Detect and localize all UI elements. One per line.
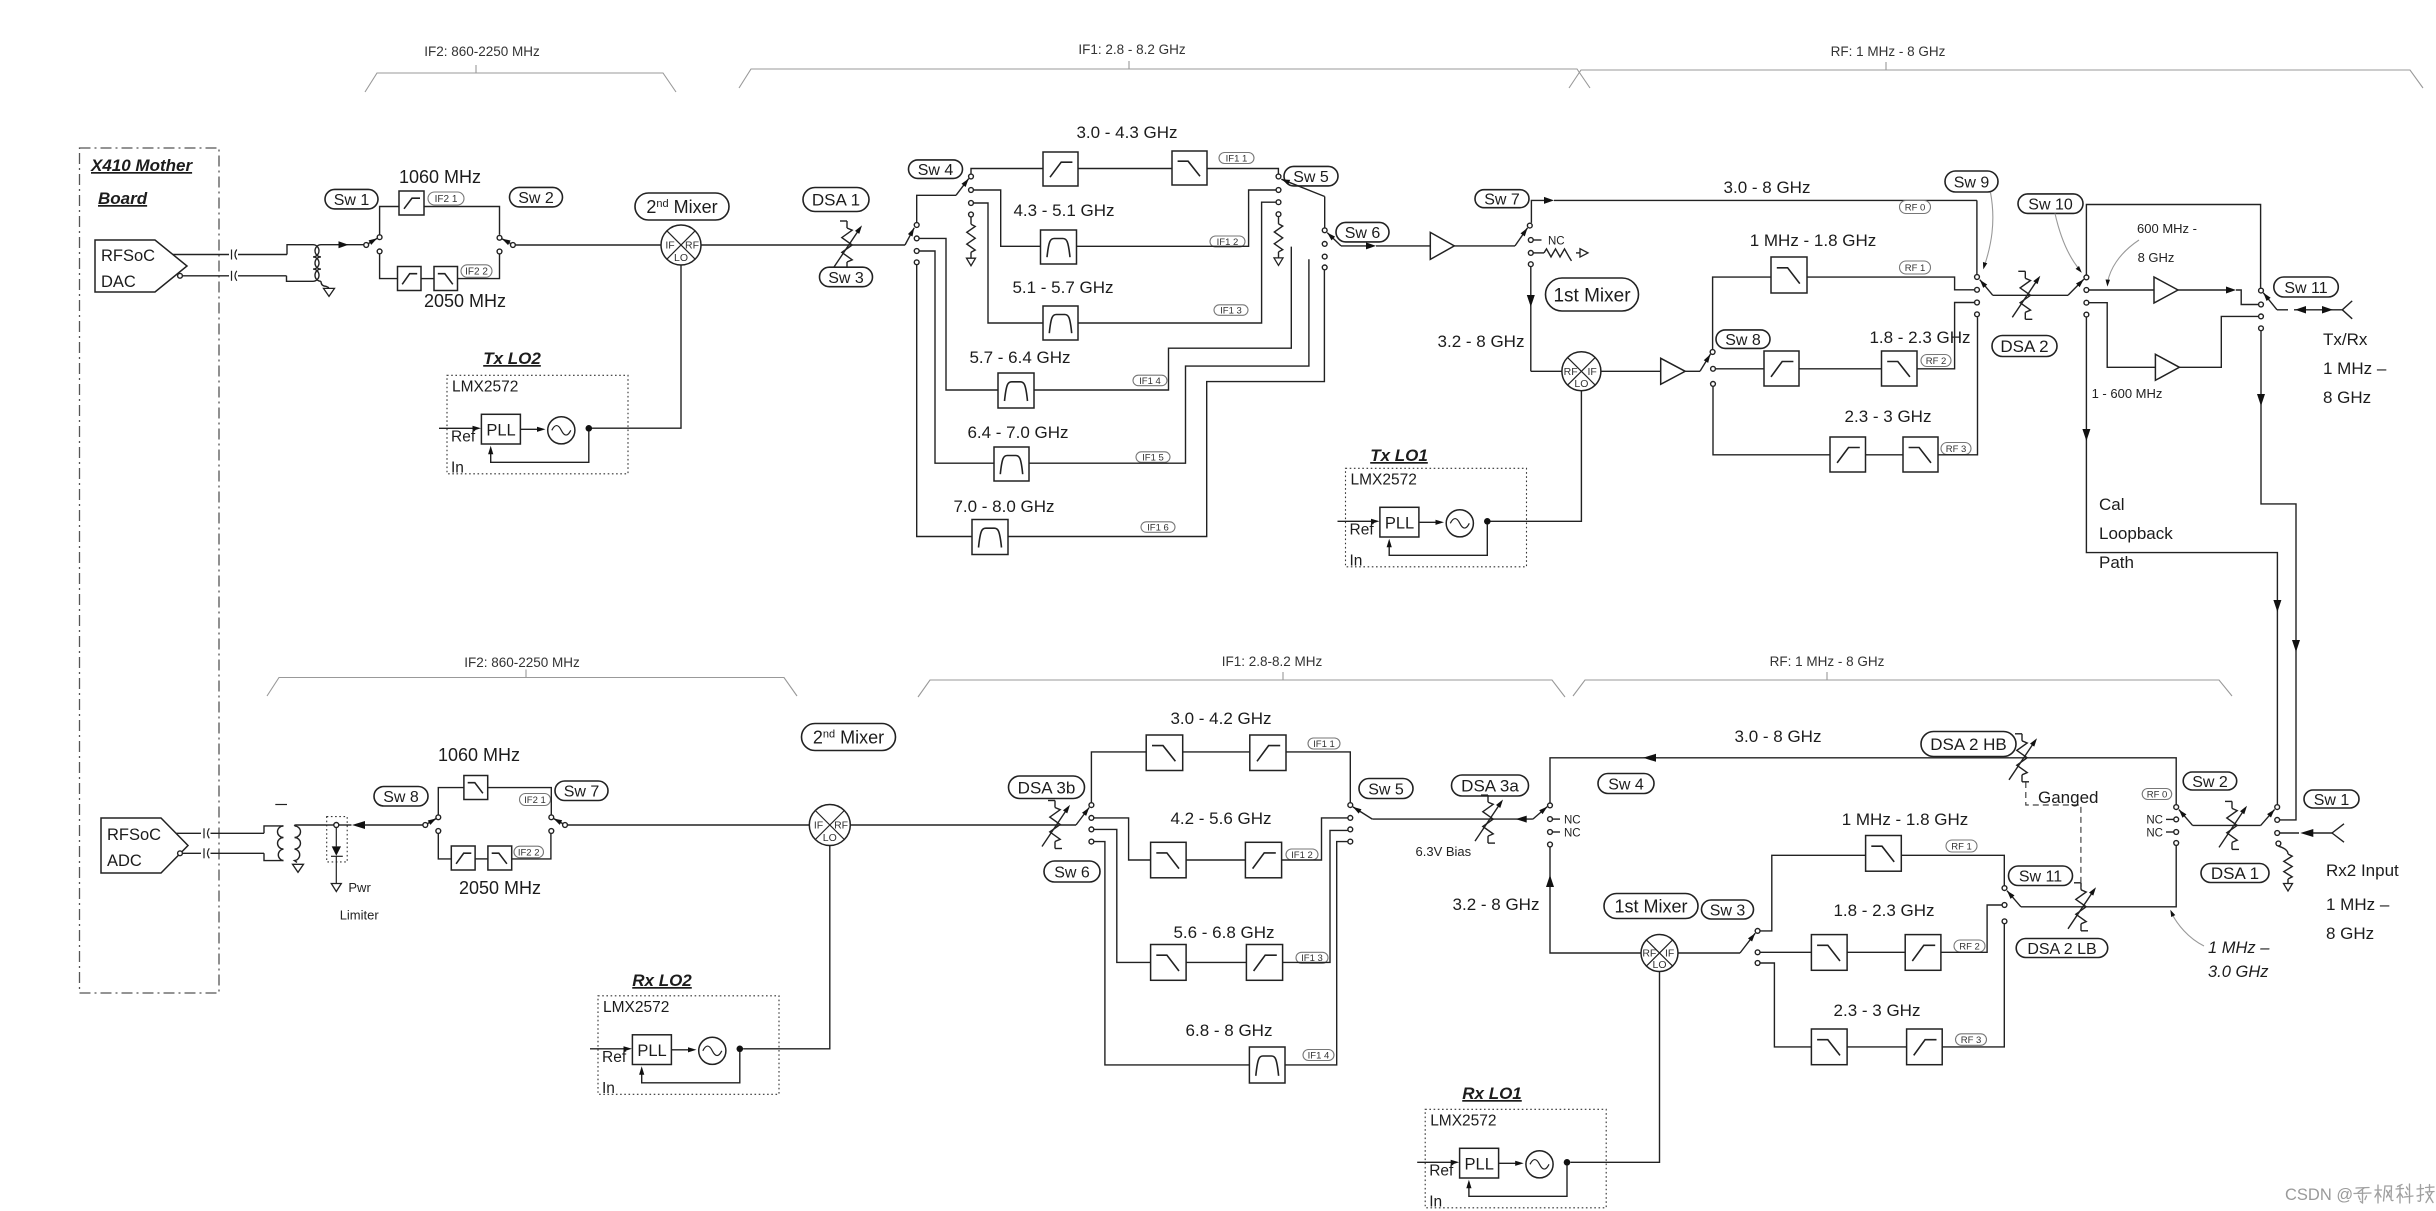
svg-text:IF1 1: IF1 1	[1313, 739, 1335, 750]
amplifier A2 Tx	[1661, 358, 1686, 384]
svg-text:1 MHz - 1.8 GHz: 1 MHz - 1.8 GHz	[1750, 231, 1877, 250]
NC stub Sw4Rx c2	[1553, 818, 1560, 820]
wire Sw8c3 to RF3 filters	[1713, 387, 1830, 455]
svg-text:Sw 7: Sw 7	[1484, 192, 1520, 209]
svg-text:IF2 2: IF2 2	[518, 847, 540, 858]
contact Sw4 c3	[969, 201, 974, 206]
net IF1 3	[1214, 305, 1248, 316]
PLL block Tx LO1	[1346, 468, 1527, 567]
svg-text:5.6 - 6.8 GHz: 5.6 - 6.8 GHz	[1173, 923, 1274, 942]
contact Sw8 Rx lower	[436, 829, 441, 834]
wire band5 to Sw6	[1029, 259, 1309, 463]
svg-text:DSA 2 HB: DSA 2 HB	[1930, 735, 2007, 754]
net RF 0	[1900, 201, 1931, 214]
svg-text:RF 2: RF 2	[1959, 941, 1980, 952]
ground limiter	[331, 884, 341, 892]
wire RF2 to Sw9	[1917, 303, 1974, 369]
net RF 1	[1900, 261, 1931, 274]
net Rx IF1 2	[1286, 849, 1318, 860]
balun transformer Tx	[287, 245, 306, 255]
arm Sw2	[502, 239, 511, 244]
svg-text:1 MHz - 1.8 GHz: 1 MHz - 1.8 GHz	[1842, 810, 1969, 829]
svg-text:3.0 - 4.3 GHz: 3.0 - 4.3 GHz	[1076, 123, 1177, 142]
watermark glyph ke	[2398, 1185, 2403, 1187]
limiter dotted box	[327, 817, 348, 862]
net IF2 1 Rx	[520, 794, 551, 806]
attenuator DSA 1 label	[803, 188, 869, 212]
svg-text:IF2: 860-2250 MHz: IF2: 860-2250 MHz	[424, 44, 540, 59]
svg-text:RF: 1 MHz - 8 GHz: RF: 1 MHz - 8 GHz	[1770, 654, 1885, 669]
svg-text:DAC: DAC	[101, 273, 136, 291]
contact Sw5 c2	[1276, 188, 1281, 193]
svg-text:4.3 - 5.1 GHz: 4.3 - 5.1 GHz	[1013, 201, 1114, 220]
contact Rx DSA3b c2	[1089, 816, 1094, 821]
wire between 2050 filters	[421, 278, 434, 280]
capacitor C lower Tx	[231, 271, 233, 281]
net IF1 2	[1210, 236, 1245, 247]
svg-text:Sw 4: Sw 4	[1608, 776, 1644, 793]
filter 5.7-6.4 BPF	[998, 373, 1034, 408]
attenuator DSA 3a label	[1452, 775, 1529, 796]
svg-text:Path: Path	[2099, 553, 2134, 572]
wire to amp1	[1376, 245, 1430, 247]
svg-text:LO: LO	[1652, 959, 1666, 971]
filter 4.3-5.1 BPF	[1041, 230, 1077, 264]
contact Sw6 c3	[1322, 254, 1327, 259]
svg-text:Sw 5: Sw 5	[1293, 169, 1329, 186]
filter 2050 LPF Rx	[488, 846, 512, 870]
mixer U-Rx2 circle	[809, 805, 850, 846]
contact Rx DSA3b c4	[1089, 839, 1094, 844]
arm into Sw3	[905, 228, 914, 245]
mixer U-Rx1 circle	[1641, 935, 1678, 972]
wire 1060 filter to Sw2	[424, 207, 500, 235]
arm Sw7	[1515, 228, 1528, 246]
svg-text:7.0 - 8.0 GHz: 7.0 - 8.0 GHz	[953, 497, 1054, 516]
svg-text:LO: LO	[1574, 378, 1588, 390]
contact Sw1 upper	[377, 235, 382, 240]
switch Sw 5 label	[1284, 166, 1338, 186]
svg-text:IF1 4: IF1 4	[1139, 376, 1161, 387]
svg-text:IF1 1: IF1 1	[1226, 153, 1248, 164]
wire balun to limiter	[326, 824, 334, 826]
capacitor C upper Rx	[203, 828, 205, 838]
switch Sw 10 label	[2018, 194, 2083, 214]
wire band1 to Sw5	[1207, 169, 1278, 174]
wire Tx2 mixer LO	[592, 265, 681, 428]
wire Rx band3 left	[1094, 829, 1151, 962]
diode limiter	[335, 828, 337, 847]
wire RF3 mid	[1866, 454, 1904, 456]
svg-text:DSA 1: DSA 1	[812, 191, 860, 210]
svg-text:RF: RF	[1642, 948, 1656, 960]
wire RxRF2 row	[1760, 951, 1811, 953]
svg-text:3.0 - 8 GHz: 3.0 - 8 GHz	[1724, 178, 1811, 197]
wire amp1 to Sw7	[1454, 245, 1515, 247]
wire cap to balun upper Rx	[211, 832, 265, 834]
wire band2 to Sw5	[1077, 190, 1276, 246]
filter RF1 LPF	[1771, 257, 1807, 293]
mixer label 1st Mixer Tx	[1546, 278, 1639, 311]
wire Sw8 to 1060 Rx	[438, 788, 464, 815]
arm Sw5 Rx	[1353, 807, 1372, 819]
svg-text:Tx LO1: Tx LO1	[1370, 446, 1428, 465]
svg-text:1.8 - 2.3 GHz: 1.8 - 2.3 GHz	[1869, 328, 1970, 347]
svg-text:LMX2572: LMX2572	[1430, 1112, 1496, 1129]
wire Sw7c4 to 1st mixer	[1530, 267, 1532, 371]
ground balun Tx	[324, 288, 335, 296]
arrow into limiter wire	[352, 821, 365, 829]
node limiter	[334, 823, 339, 828]
wire amp4 to Sw11 c3	[2179, 316, 2258, 367]
svg-text:Sw 2: Sw 2	[2192, 774, 2228, 791]
svg-text:RF 0: RF 0	[1905, 202, 1926, 213]
svg-text:IF2 2: IF2 2	[465, 267, 488, 278]
wire RxRF1 row	[1760, 855, 1865, 931]
svg-text:Ref: Ref	[1350, 521, 1375, 538]
wire 2050 to Sw7 Rx	[512, 834, 551, 859]
filter 6.4-7.0 BPF	[994, 447, 1029, 481]
switch Sw 4 label	[909, 160, 963, 179]
attenuator DSA 1 Rx label	[2201, 864, 2269, 883]
svg-text:IF2 1: IF2 1	[524, 795, 546, 806]
wire 2050 mid Rx	[475, 858, 488, 860]
contact Sw3 c2	[914, 236, 919, 241]
svg-text:3.2 - 8 GHz: 3.2 - 8 GHz	[1438, 332, 1525, 351]
svg-text:1 MHz –: 1 MHz –	[2323, 359, 2387, 378]
net RF 2	[1921, 355, 1951, 367]
arm Sw8 Rx	[428, 818, 437, 823]
wire Sw10c3 to amp LB	[2089, 303, 2155, 368]
svg-text:IF1 5: IF1 5	[1142, 452, 1164, 463]
section brace IF1 bottom	[918, 680, 1565, 697]
terminator resistor Sw5	[1278, 217, 1280, 224]
svg-text:Board: Board	[98, 189, 148, 208]
svg-text:3.2 - 8 GHz: 3.2 - 8 GHz	[1453, 895, 1540, 914]
wire Sw3c4 to band6	[917, 265, 972, 537]
svg-text:RF: RF	[834, 820, 848, 832]
contact Sw6 c1	[1322, 228, 1327, 233]
contact Sw3 Rx c2	[1755, 950, 1760, 955]
wire RxRF1 to Sw11	[1901, 855, 2004, 885]
wire Rx band1 left	[1091, 752, 1146, 803]
arm Sw2 Rx	[2179, 810, 2193, 826]
arrow into Sw1	[339, 241, 349, 248]
svg-text:DSA 3a: DSA 3a	[1461, 777, 1519, 796]
svg-text:IF1: 2.8 - 8.2 GHz: IF1: 2.8 - 8.2 GHz	[1078, 42, 1186, 57]
svg-text:Limiter: Limiter	[340, 908, 380, 923]
attenuator DSA 2 LB symbol	[2076, 890, 2086, 924]
arm Sw9	[1980, 280, 1993, 296]
contact Sw9 c4	[1975, 312, 1980, 317]
attenuator DSA 1 symbol	[842, 228, 852, 262]
wire Sw3c2 to band4	[919, 238, 998, 390]
svg-text:Tx LO2: Tx LO2	[483, 349, 541, 368]
switch Sw 6 Rx label	[1044, 861, 1100, 882]
net IF1 5	[1136, 452, 1170, 463]
filter 2050 MHz HPF	[398, 267, 422, 291]
contact Sw1 Rx c3	[2275, 831, 2280, 836]
contact Rx DSA3b c3	[1089, 827, 1094, 832]
wire Rx band2 left	[1094, 818, 1151, 860]
contact Sw5 c4	[1276, 212, 1281, 217]
contact Sw3 c3	[914, 249, 919, 254]
svg-text:Sw 6: Sw 6	[1345, 225, 1381, 242]
wire Sw1 to 1060 filter	[380, 207, 399, 235]
svg-text:In: In	[602, 1080, 615, 1097]
svg-text:Sw 4: Sw 4	[918, 162, 954, 179]
attenuator DSA 3b label	[1009, 776, 1085, 799]
svg-text:DSA 1: DSA 1	[2211, 864, 2259, 883]
node Sw2 common	[511, 243, 516, 248]
filter 1060 MHz	[399, 191, 424, 215]
wire 1060 to Sw7 Rx	[488, 788, 552, 815]
arm Sw4	[956, 179, 969, 196]
port TxRx connector	[2334, 301, 2352, 319]
wire balun output	[321, 244, 364, 246]
contact Sw11 c3	[2259, 314, 2264, 319]
contact Sw1 Rx c4	[2276, 841, 2281, 846]
svg-text:IF1 6: IF1 6	[1147, 522, 1169, 533]
contact Sw4 c4	[969, 212, 974, 217]
contact Sw4 Rx c4	[1548, 842, 1553, 847]
contact Sw5 c3	[1276, 200, 1281, 205]
contact Sw6 c4	[1322, 265, 1327, 270]
svg-text:2050 MHz: 2050 MHz	[459, 878, 541, 898]
net Rx RF 0	[2142, 789, 2172, 800]
wire RF0 into Sw9	[1976, 200, 1978, 274]
filter 3.0-4.3 LPF	[1172, 151, 1207, 185]
arrow Sw6 out	[1366, 242, 1376, 249]
mixer U-Tx1 circle	[1562, 352, 1601, 391]
wire Sw8 to 2050 Rx	[438, 834, 451, 859]
filter 1060 MHz Rx	[464, 776, 488, 800]
wire Sw11 to DSA2LB	[2021, 906, 2088, 908]
wire RxRF2 to Sw11	[1941, 905, 2002, 952]
contact Sw4 c2	[969, 188, 974, 193]
svg-text:Rx LO1: Rx LO1	[1462, 1084, 1522, 1103]
svg-text:RF 1: RF 1	[1951, 841, 1972, 852]
svg-text:DSA 2: DSA 2	[2000, 337, 2048, 356]
NC stub Sw7 c2	[1534, 239, 1542, 241]
wire Sw2 to DSA1 Rx	[2193, 824, 2261, 826]
svg-text:In: In	[1429, 1193, 1442, 1210]
switch Sw 3 Rx label	[1702, 900, 1754, 919]
contact Sw3 Rx c3	[1755, 961, 1760, 966]
wire arrow to Sw8 Rx	[365, 824, 423, 826]
filter Rx 3.0-4.2 HPF	[1250, 735, 1286, 771]
NC stub Sw2Rx c2	[2166, 818, 2174, 820]
svg-text:PLL: PLL	[1385, 514, 1414, 532]
svg-text:Sw 5: Sw 5	[1368, 781, 1404, 798]
wire Sw4c1 to band1	[971, 169, 1043, 174]
svg-text:DSA 3b: DSA 3b	[1018, 778, 1076, 797]
net IF1 4	[1133, 375, 1167, 386]
attenuator DSA 3b symbol	[1050, 808, 1060, 842]
contact Sw11 Rx c2	[2002, 903, 2007, 908]
switch Sw 2 label	[510, 187, 563, 207]
wire Rx band3 mid	[1186, 961, 1246, 963]
leader 1MHz-3GHz	[2172, 913, 2205, 946]
contact Sw2 lower	[497, 249, 502, 254]
mixer label 2nd Mixer Tx	[635, 193, 729, 220]
arm Sw5 to Sw6	[1324, 197, 1326, 228]
contact Sw10 c1	[2084, 275, 2089, 280]
contact Sw4 Rx c3	[1548, 830, 1553, 835]
switch Sw 1 Rx label	[2304, 790, 2359, 808]
NC stub Sw2Rx c3	[2166, 831, 2174, 833]
svg-text:Rx2 Input: Rx2 Input	[2326, 861, 2399, 880]
svg-text:IF1: 2.8-8.2 MHz: IF1: 2.8-8.2 MHz	[1222, 654, 1323, 669]
wire mixer to DSA1	[701, 244, 905, 246]
attenuator DSA 2 HB label	[1921, 732, 2016, 757]
wire amp3 to Sw11 c2	[2236, 290, 2258, 305]
amplifier A4 1-600M	[2155, 354, 2179, 380]
svg-text:5.7 - 6.4 GHz: 5.7 - 6.4 GHz	[969, 348, 1070, 367]
switch Sw 7 label	[1475, 190, 1529, 208]
arm Sw3 Rx	[1740, 933, 1755, 953]
svg-text:RF: RF	[1564, 366, 1578, 378]
contact Sw11 c1	[2259, 288, 2264, 293]
contact Sw7 c3	[1528, 251, 1533, 256]
arm DSA3b to c1	[1076, 808, 1089, 826]
svg-text:2.3 - 3 GHz: 2.3 - 3 GHz	[1845, 407, 1932, 426]
svg-text:8 GHz: 8 GHz	[2323, 388, 2371, 407]
contact Sw1 Rx c2	[2275, 818, 2280, 823]
net RF 3	[1941, 443, 1971, 455]
wire band1 mid	[1078, 168, 1172, 170]
switch Sw 8 Rx label	[374, 787, 428, 807]
svg-text:Sw 6: Sw 6	[1054, 864, 1090, 881]
wire Sw5 to DSA3a	[1372, 818, 1533, 820]
switch Sw 6 label	[1336, 222, 1389, 242]
wire Sw8c2 to RF2 filters	[1716, 368, 1764, 370]
svg-text:RFSoC: RFSoC	[107, 826, 161, 844]
net IF2 1	[428, 192, 464, 205]
wire Rx2 input port	[2280, 832, 2299, 834]
svg-text:In: In	[1350, 552, 1363, 569]
wire ADC lower to cap	[183, 852, 201, 854]
arm Sw11 Rx	[2007, 891, 2021, 907]
wire 2050 filters to Sw2	[458, 254, 500, 278]
contact Sw2 Rx c1	[2174, 805, 2179, 810]
wire RxRF3 row	[1760, 963, 1811, 1047]
svg-text:LMX2572: LMX2572	[603, 999, 669, 1016]
contact Sw1 lower	[377, 249, 382, 254]
contact Sw11 c2	[2259, 302, 2264, 307]
svg-text:IF2 1: IF2 1	[435, 194, 458, 205]
svg-text:Tx/Rx: Tx/Rx	[2323, 330, 2368, 349]
arm Sw1 Rx	[2261, 809, 2275, 825]
section brace RF top	[1569, 70, 2423, 88]
contact Sw5 Rx c2	[1348, 816, 1353, 821]
wire RxRF3 mid	[1847, 1046, 1907, 1048]
contact Sw11 Rx c3	[2002, 919, 2007, 924]
switch Sw 2 Rx label	[2183, 772, 2237, 790]
svg-text:IF: IF	[1665, 948, 1674, 960]
wire Rx band4 right	[1285, 842, 1348, 1065]
svg-text:Ref: Ref	[451, 428, 476, 445]
filter RxRF3 HPF	[1907, 1029, 1943, 1065]
arm Sw11 to port	[2263, 293, 2277, 310]
svg-text:CSDN @: CSDN @	[2285, 1186, 2353, 1204]
contact Sw9 c2	[1975, 287, 1980, 292]
stray tick above balun	[275, 804, 287, 806]
svg-text:X410 Mother: X410 Mother	[90, 156, 193, 175]
arrow 3.0-8GHz left	[1643, 754, 1656, 762]
arm Sw6 output	[1327, 233, 1341, 246]
svg-text:Pwr: Pwr	[348, 880, 371, 895]
svg-text:3.0 GHz: 3.0 GHz	[2208, 963, 2269, 981]
wire limiter to arrow	[339, 824, 352, 826]
wire Rx1 mixer LO	[1570, 972, 1659, 1163]
filter Rx 3.0-4.2 LPF	[1146, 735, 1183, 771]
PLL block Rx LO1	[1425, 1109, 1606, 1208]
contact Sw10 c3	[2084, 300, 2089, 305]
contact Sw3 c1	[914, 223, 919, 228]
wire Sw8c1 to RF1 filter	[1713, 277, 1771, 349]
node DAC lower pin	[178, 273, 183, 278]
terminator Sw1 Rx c4	[2278, 846, 2288, 854]
attenuator DSA 2 symbol	[2020, 278, 2030, 312]
contact Sw10 c4	[2084, 312, 2089, 317]
wire Sw3c3 to band5	[919, 251, 994, 463]
attenuator DSA 2 LB label	[2016, 939, 2108, 958]
section brace IF1 top	[739, 69, 1590, 88]
wire Sw3c1 to Sw4 pivot	[917, 195, 956, 222]
port TxRx double arrow	[2294, 309, 2334, 311]
filter RF2 LPF	[1882, 351, 1918, 386]
switch Sw 4 Rx label	[1598, 774, 1654, 794]
wire Sw10c1 bypass to Sw11	[2086, 205, 2260, 288]
svg-text:IF1 3: IF1 3	[1220, 305, 1242, 316]
filter RxRF2 HPF	[1905, 935, 1941, 971]
RFSoC ADC block	[101, 818, 188, 873]
contact Sw1 Rx c1	[2275, 805, 2280, 810]
terminator Sw7 c3	[1534, 252, 1545, 254]
contact Sw11 Rx c1	[2002, 886, 2007, 891]
contact Sw5 Rx c4	[1348, 839, 1353, 844]
switch Sw 3 label	[820, 267, 873, 287]
switch Sw 8 label	[1716, 330, 1770, 349]
contact Sw8 Rx upper	[436, 815, 441, 820]
svg-text:NC: NC	[1564, 828, 1581, 840]
svg-text:1st Mixer: 1st Mixer	[1614, 897, 1687, 917]
arrow amp3 out	[2178, 289, 2227, 291]
mixer U-Tx2 circle	[661, 225, 701, 265]
svg-text:4.2 - 5.6 GHz: 4.2 - 5.6 GHz	[1170, 809, 1271, 828]
svg-text:Sw 3: Sw 3	[828, 270, 864, 287]
port Rx2 connector	[2332, 824, 2344, 842]
leader 600MHz amp	[2108, 240, 2139, 282]
wire band3 to Sw5	[1078, 202, 1276, 323]
contact Sw9 c3	[1975, 300, 1980, 305]
filter RxRF2 LPF	[1811, 935, 1847, 971]
wire Rx band1 mid	[1183, 751, 1250, 753]
wire cal loopback from Sw10c4	[2086, 317, 2277, 804]
switch Sw 11 label	[2274, 277, 2339, 297]
filter 2050 MHz LPF	[434, 267, 458, 291]
contact Sw2 upper	[497, 235, 502, 240]
net Rx IF1 3	[1296, 952, 1328, 963]
arm Sw4 Rx	[1533, 807, 1547, 820]
wire band4 to Sw6	[1034, 247, 1291, 390]
contact Sw3 c4	[914, 260, 919, 265]
switch Sw 9 label	[1945, 171, 1998, 192]
svg-text:RF 0: RF 0	[2147, 789, 2168, 800]
svg-text:8 GHz: 8 GHz	[2326, 924, 2374, 943]
svg-text:NC: NC	[2146, 828, 2163, 840]
